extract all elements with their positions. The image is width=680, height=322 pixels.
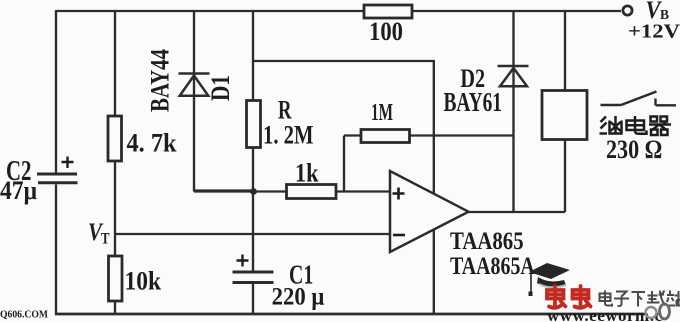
svg-text:BAY44: BAY44 (146, 49, 175, 112)
svg-text:100: 100 (369, 17, 403, 46)
svg-text:4. 7k: 4. 7k (127, 128, 177, 157)
svg-text:1M: 1M (371, 100, 393, 126)
svg-text:230 Ω: 230 Ω (606, 135, 662, 164)
svg-text:+12V: +12V (628, 20, 680, 42)
svg-text:1k: 1k (295, 159, 319, 188)
svg-text:Q606.COM: Q606.COM (0, 310, 49, 321)
svg-text:47μ: 47μ (0, 176, 37, 205)
svg-text:220 μ: 220 μ (272, 284, 325, 311)
svg-text:10k: 10k (125, 266, 162, 295)
svg-text:TAA865A: TAA865A (450, 253, 535, 280)
svg-text:1. 2M: 1. 2M (263, 121, 314, 150)
svg-text:TAA865: TAA865 (450, 228, 524, 255)
svg-text:BAY61: BAY61 (444, 87, 503, 117)
svg-text:D1: D1 (206, 75, 235, 101)
svg-text:T: T (101, 231, 110, 248)
